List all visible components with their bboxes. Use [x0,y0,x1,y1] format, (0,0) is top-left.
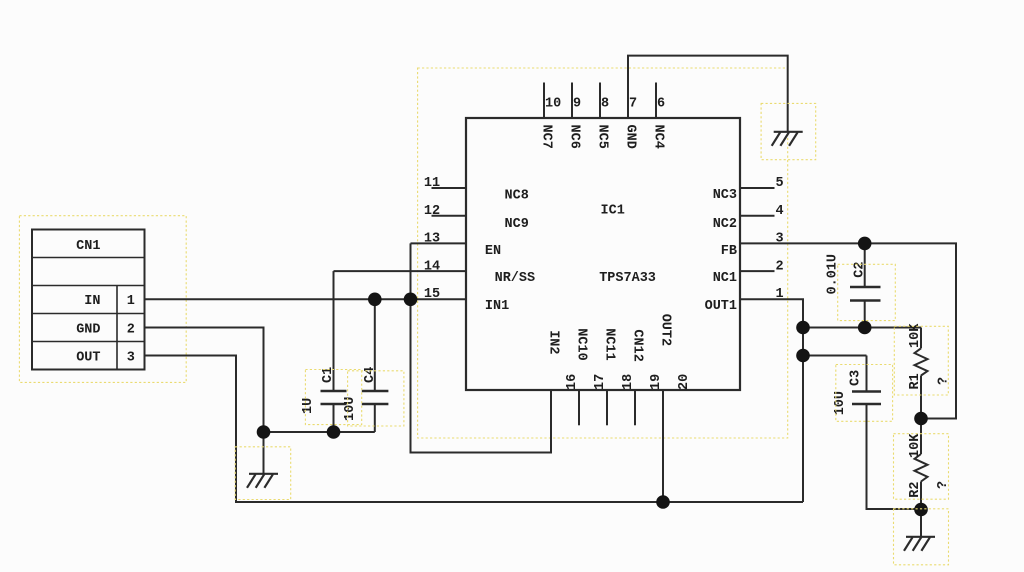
svg-text:NC2: NC2 [713,217,737,232]
svg-text:IN2: IN2 [545,330,560,354]
svg-text:NC11: NC11 [601,328,616,360]
svg-text:6: 6 [657,97,665,112]
svg-text:15: 15 [424,287,440,302]
svg-text:OUT: OUT [76,350,100,365]
svg-text:NC7: NC7 [538,125,553,149]
svg-text:13: 13 [424,232,440,247]
svg-text:NC5: NC5 [594,125,609,149]
svg-text:GND: GND [76,322,100,337]
svg-text:3: 3 [776,232,784,247]
svg-text:18: 18 [621,374,636,390]
svg-text:NC4: NC4 [650,125,665,149]
svg-text:IN: IN [84,294,100,309]
svg-text:C3: C3 [849,370,864,386]
svg-text:10U: 10U [343,397,358,421]
svg-text:14: 14 [424,259,440,274]
svg-text:3: 3 [127,350,135,365]
svg-text:C4: C4 [363,367,378,383]
svg-text:IN1: IN1 [485,299,509,314]
svg-text:2: 2 [776,259,784,274]
svg-text:8: 8 [601,97,609,112]
svg-text:12: 12 [424,204,440,219]
svg-text:20: 20 [677,374,692,390]
svg-text:7: 7 [629,97,637,112]
svg-text:IC1: IC1 [601,204,625,219]
svg-text:NC9: NC9 [505,217,529,232]
svg-text:11: 11 [424,176,440,191]
svg-text:EN: EN [485,244,501,259]
svg-text:2: 2 [127,322,135,337]
svg-text:CN1: CN1 [76,239,100,254]
svg-text:TPS7A33: TPS7A33 [599,271,656,286]
svg-text:17: 17 [593,374,608,390]
svg-text:5: 5 [776,176,784,191]
svg-text:?: ? [937,377,952,385]
svg-text:4: 4 [776,204,784,219]
svg-text:FB: FB [721,244,737,259]
svg-text:10K: 10K [908,433,923,458]
svg-text:NR/SS: NR/SS [495,271,536,286]
svg-text:OUT1: OUT1 [705,299,737,314]
svg-text:GND: GND [622,125,637,149]
svg-text:NC10: NC10 [573,328,588,360]
svg-text:19: 19 [649,374,664,390]
svg-text:1U: 1U [301,398,316,414]
svg-text:1: 1 [776,287,784,302]
svg-text:NC3: NC3 [713,188,737,203]
svg-text:CN12: CN12 [629,329,644,361]
svg-text:1: 1 [127,294,135,309]
svg-text:10: 10 [545,97,561,112]
svg-text:10U: 10U [833,391,848,415]
svg-text:NC1: NC1 [713,271,737,286]
svg-text:NC6: NC6 [566,125,581,149]
svg-text:NC8: NC8 [505,188,529,203]
svg-text:OUT2: OUT2 [657,314,672,346]
svg-text:R1: R1 [908,373,923,389]
svg-text:R2: R2 [908,481,923,497]
svg-text:16: 16 [565,374,580,390]
svg-text:9: 9 [573,97,581,112]
